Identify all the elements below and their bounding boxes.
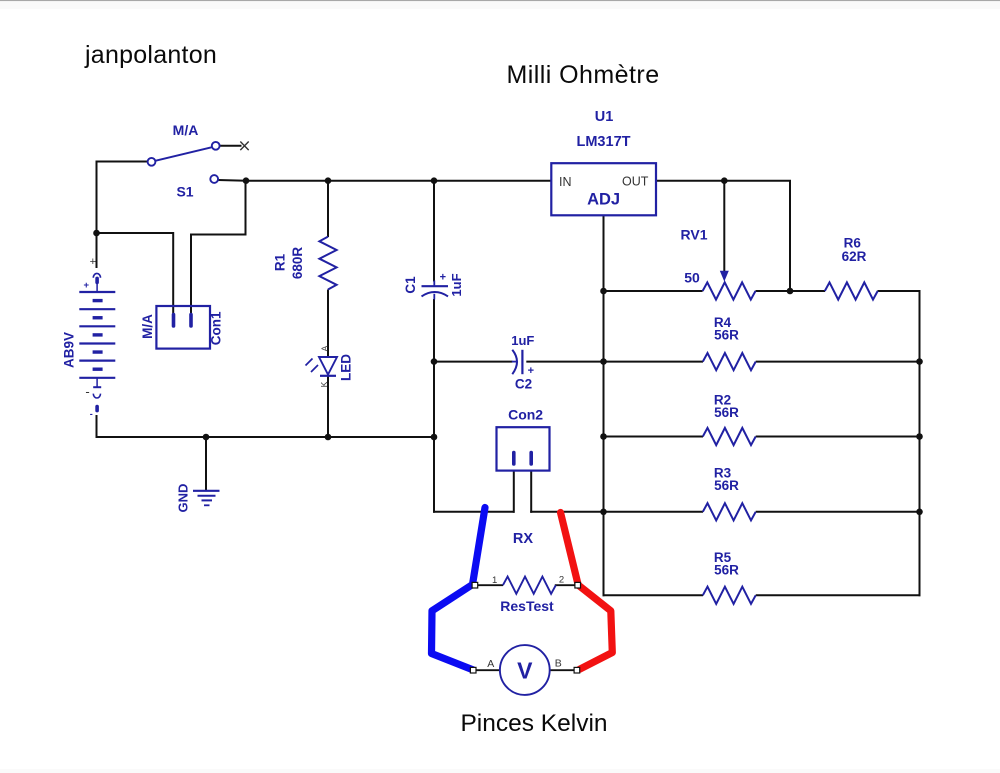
svg-text:R1: R1 bbox=[273, 253, 288, 271]
svg-text:M/A: M/A bbox=[173, 122, 199, 138]
Kelvin clip wire blue bbox=[432, 508, 486, 670]
wire S1 junction down to Con1 pin 2 bbox=[190, 181, 247, 315]
wire Con2 pin 2 to left rail bbox=[530, 466, 604, 513]
ground bus wire bbox=[96, 436, 436, 438]
RV1 wiper arrowhead bbox=[720, 271, 729, 282]
capacitor C2 bbox=[512, 350, 523, 374]
wire switch lower terminal to top bus bbox=[218, 179, 247, 182]
svg-text:LED: LED bbox=[339, 354, 354, 381]
svg-text:AB9V: AB9V bbox=[62, 332, 77, 368]
svg-text:Con2: Con2 bbox=[508, 406, 543, 422]
svg-text:S1: S1 bbox=[176, 184, 193, 200]
resistor R1 bbox=[319, 237, 336, 290]
svg-text:56R: 56R bbox=[714, 562, 739, 577]
wire battery junction to Con1 pin 1 bbox=[96, 232, 175, 315]
svg-text:Milli Ohmètre: Milli Ohmètre bbox=[506, 61, 659, 89]
row wire y361.5 C2/R4 bbox=[434, 361, 920, 363]
svg-text:-: - bbox=[85, 384, 89, 399]
wire RV1 wiper drop bbox=[723, 182, 725, 272]
wire battery+ to switch S1 left terminal bbox=[96, 161, 148, 269]
wire switch upper throw to X mark bbox=[220, 145, 242, 147]
svg-text:1: 1 bbox=[492, 575, 497, 586]
GND stub wire bbox=[205, 437, 207, 490]
resistor ResTest wires bbox=[477, 584, 577, 586]
svg-text:+: + bbox=[90, 256, 96, 268]
svg-text:LM317T: LM317T bbox=[577, 134, 631, 150]
row wire y595.3 R5 bbox=[603, 594, 921, 596]
voltmeter wires bbox=[476, 669, 575, 671]
resistor R3 bbox=[703, 503, 756, 520]
bottom edge artifact strip bbox=[0, 769, 1000, 773]
row wire y436.5 R2 bbox=[604, 436, 920, 438]
svg-text:RV1: RV1 bbox=[681, 227, 708, 243]
svg-text:1uF: 1uF bbox=[511, 333, 534, 348]
svg-text:RX: RX bbox=[513, 531, 533, 547]
svg-text:+: + bbox=[84, 280, 90, 291]
svg-text:C1: C1 bbox=[403, 276, 418, 294]
svg-text:56R: 56R bbox=[714, 478, 739, 493]
svg-text:56R: 56R bbox=[714, 405, 739, 420]
resistor R5 bbox=[703, 587, 756, 604]
connector Con2 box bbox=[497, 427, 550, 470]
regulator U1 box bbox=[551, 163, 656, 215]
svg-text:GND: GND bbox=[176, 484, 191, 513]
svg-text:2: 2 bbox=[559, 575, 564, 586]
svg-text:1uF: 1uF bbox=[449, 273, 464, 296]
Kelvin clip wire red bbox=[561, 513, 613, 670]
wire C1 branch corner to Con2 pin 1 bbox=[433, 466, 515, 513]
svg-text:C2: C2 bbox=[515, 376, 532, 391]
svg-text:K: K bbox=[319, 381, 329, 387]
svg-text:680R: 680R bbox=[290, 247, 305, 280]
svg-text:56R: 56R bbox=[714, 328, 739, 343]
ResTest terminal square 2 bbox=[575, 582, 581, 588]
svg-text:Pinces Kelvin: Pinces Kelvin bbox=[460, 710, 607, 737]
row wire y511.8 R3 bbox=[604, 511, 920, 513]
svg-text:ResTest: ResTest bbox=[500, 598, 554, 614]
ResTest terminal square 1 bbox=[472, 582, 478, 588]
voltmeter terminal square A bbox=[470, 667, 476, 673]
resistor R6 bbox=[825, 282, 878, 299]
no-connect X mark bbox=[240, 142, 248, 151]
svg-text:B: B bbox=[555, 658, 562, 670]
wire R1/LED branch bbox=[327, 181, 329, 437]
connector Con1 box bbox=[156, 306, 210, 349]
right rail bbox=[919, 290, 921, 596]
svg-text:OUT: OUT bbox=[622, 175, 649, 189]
voltmeter circle bbox=[500, 645, 550, 695]
svg-text:A: A bbox=[320, 345, 330, 351]
svg-text:janpolanton: janpolanton bbox=[84, 41, 217, 69]
LED D1 bbox=[306, 357, 338, 376]
left rail (ADJ net) bbox=[603, 216, 605, 597]
svg-text:+: + bbox=[528, 365, 534, 377]
resistor R2 bbox=[703, 428, 756, 445]
svg-text:-: - bbox=[90, 409, 93, 419]
resistor R4 bbox=[703, 353, 756, 370]
switch S1 pole terminal bbox=[148, 158, 156, 166]
svg-text:62R: 62R bbox=[842, 249, 867, 264]
voltmeter terminal square B bbox=[574, 667, 580, 673]
capacitor C1 bbox=[422, 281, 449, 300]
row wire y291 pot/R6 bbox=[603, 290, 921, 292]
top toolbar remnant strip bbox=[0, 0, 1000, 9]
svg-text:U1: U1 bbox=[595, 109, 614, 125]
Con2 pins bbox=[514, 453, 531, 465]
wire battery- to ground bus bbox=[96, 415, 98, 438]
svg-text:ADJ: ADJ bbox=[587, 191, 620, 209]
svg-text:IN: IN bbox=[559, 175, 572, 189]
battery AB9V bbox=[79, 273, 115, 412]
svg-text:A: A bbox=[487, 658, 494, 670]
svg-text:Con1: Con1 bbox=[209, 311, 224, 345]
switch S1 upper throw terminal bbox=[212, 142, 220, 150]
wire top bus to U1 IN bbox=[246, 180, 552, 182]
wire C1 branch vertical bbox=[433, 181, 435, 513]
switch S1 lever bbox=[155, 147, 212, 161]
wire U1 OUT to right corner bbox=[656, 181, 791, 291]
svg-text:50: 50 bbox=[684, 270, 700, 286]
ground symbol bbox=[193, 491, 220, 506]
svg-text:V: V bbox=[517, 658, 533, 684]
resistor ResTest body bbox=[503, 577, 556, 594]
svg-text:M/A: M/A bbox=[140, 314, 155, 339]
svg-text:+: + bbox=[440, 272, 446, 284]
potentiometer RV1 body bbox=[703, 282, 756, 299]
switch S1 lower throw terminal bbox=[210, 175, 218, 183]
Con1 pins bbox=[174, 315, 192, 327]
